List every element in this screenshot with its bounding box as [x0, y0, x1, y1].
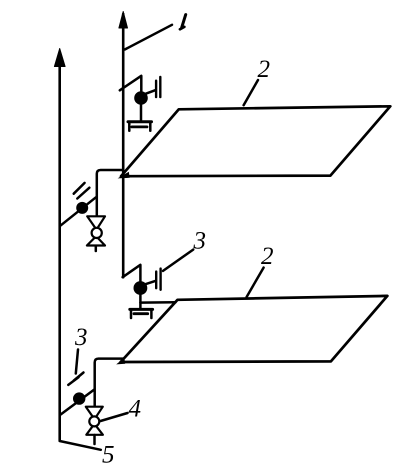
thermostatic valve (upper): sensor bars — [156, 77, 160, 97]
supply riser (middle vertical pipe) — [122, 14, 125, 277]
label 4 leader — [101, 413, 128, 421]
radiator union bracket (upper) — [128, 122, 152, 131]
radiator 2 (upper panel) — [121, 106, 390, 176]
svg-text:3: 3 — [193, 228, 207, 255]
union marks (upper) — [74, 183, 90, 199]
label 2 (upper) — [258, 56, 271, 83]
svg-text:5: 5 — [102, 442, 115, 467]
valve 4: bottom triangle — [86, 424, 103, 435]
shut-off valve (lower): valve dot — [73, 392, 85, 404]
radiator 2 (lower panel) — [121, 296, 388, 362]
union marks (lower) — [68, 373, 83, 385]
label 2 (lower) — [261, 243, 274, 270]
shut-off valve (lower): diagonal connection to return riser — [60, 390, 94, 415]
label 3 (lower) — [74, 324, 88, 351]
label 5 — [102, 442, 115, 467]
label 3 leader (middle) — [163, 250, 193, 271]
thermostatic valve (upper): link to sensor — [146, 90, 156, 94]
shut-off valve (upper): valve dot — [76, 202, 88, 214]
drain valve (upper): tail — [95, 246, 98, 251]
valve 4: tail — [93, 435, 96, 444]
return branch (lower): horizontal pipe and elbow — [95, 359, 123, 407]
label 2 leader (lower) — [247, 268, 264, 297]
label 5 leader — [60, 441, 101, 450]
label 2 leader (upper) — [244, 80, 258, 105]
connector to lower radiator — [140, 301, 175, 304]
drain valve (upper): top triangle — [87, 216, 105, 229]
thermostatic valve (lower): link to sensor — [145, 281, 156, 285]
thermostatic valve (upper): stem to radiator — [140, 104, 143, 121]
thermostatic valve (upper): valve body dot — [134, 91, 148, 105]
thermostatic valve (lower): stem to radiator — [139, 295, 142, 309]
valve 4: handwheel circle — [89, 416, 99, 426]
return riser arrowhead — [54, 49, 65, 67]
svg-text:2: 2 — [261, 243, 274, 270]
label 4 — [129, 396, 142, 423]
svg-text:2: 2 — [258, 56, 271, 83]
label 3 (middle) — [193, 228, 207, 255]
drain valve (upper): handwheel circle — [92, 228, 102, 238]
label 3 leader (lower) — [76, 350, 78, 374]
thermostatic valve (lower): valve body dot — [134, 281, 148, 295]
label 1 leader — [125, 25, 172, 50]
drain valve (upper): bottom triangle — [87, 236, 105, 245]
return riser (left vertical pipe) — [58, 53, 61, 441]
supply riser arrowhead — [119, 12, 128, 29]
supply riser jog to lower thermostatic valve — [123, 265, 141, 281]
return branch (upper): horizontal pipe and elbow — [97, 170, 123, 216]
svg-text:4: 4 — [129, 396, 142, 423]
thermostatic valve (lower): sensor bars — [156, 269, 160, 290]
radiator union bracket (lower) — [130, 309, 153, 318]
flow arrowhead at lower radiator inlet corner — [116, 358, 125, 365]
svg-text:3: 3 — [74, 324, 88, 351]
shut-off valve (upper): diagonal connection to return riser — [60, 197, 96, 226]
thermostatic valve (upper): jog from riser — [120, 76, 142, 92]
label 1 — [180, 15, 186, 30]
flow arrowhead at upper radiator inlet corner — [118, 172, 130, 179]
valve 4: top triangle — [86, 407, 103, 420]
